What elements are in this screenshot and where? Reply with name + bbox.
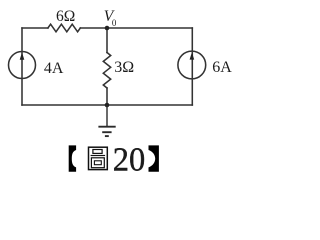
caption glyph 圖	[89, 147, 108, 169]
junction dot bottom	[105, 103, 110, 108]
wire node V0 down to resistor	[106, 28, 108, 53]
svg-text:6Ω: 6Ω	[56, 8, 75, 25]
wire right branch vertical	[191, 28, 193, 105]
wire resistor to node V0	[80, 27, 107, 29]
wire left branch vertical	[21, 28, 23, 105]
caption bracket right 】	[149, 145, 159, 171]
wire node V0 to top-right corner	[107, 27, 192, 29]
current source I1 circle	[9, 52, 36, 79]
node V0 dot	[105, 26, 110, 31]
svg-text:4A: 4A	[44, 60, 64, 77]
caption bracket left 【	[69, 145, 76, 171]
ground	[98, 105, 115, 136]
svg-text:6A: 6A	[212, 59, 232, 76]
current source I1 arrowhead	[20, 52, 25, 59]
svg-text:0: 0	[112, 18, 117, 28]
wire top-left segment	[22, 27, 48, 29]
resistor 6Ω	[48, 24, 80, 32]
resistor 3Ω	[103, 53, 110, 89]
svg-text:3Ω: 3Ω	[114, 59, 134, 76]
svg-text:20: 20	[113, 141, 146, 178]
current source I2 circle	[178, 51, 206, 79]
current source I2 arrowhead	[190, 52, 195, 59]
wire resistor to bottom junction	[106, 88, 108, 105]
wire bottom	[22, 104, 192, 106]
